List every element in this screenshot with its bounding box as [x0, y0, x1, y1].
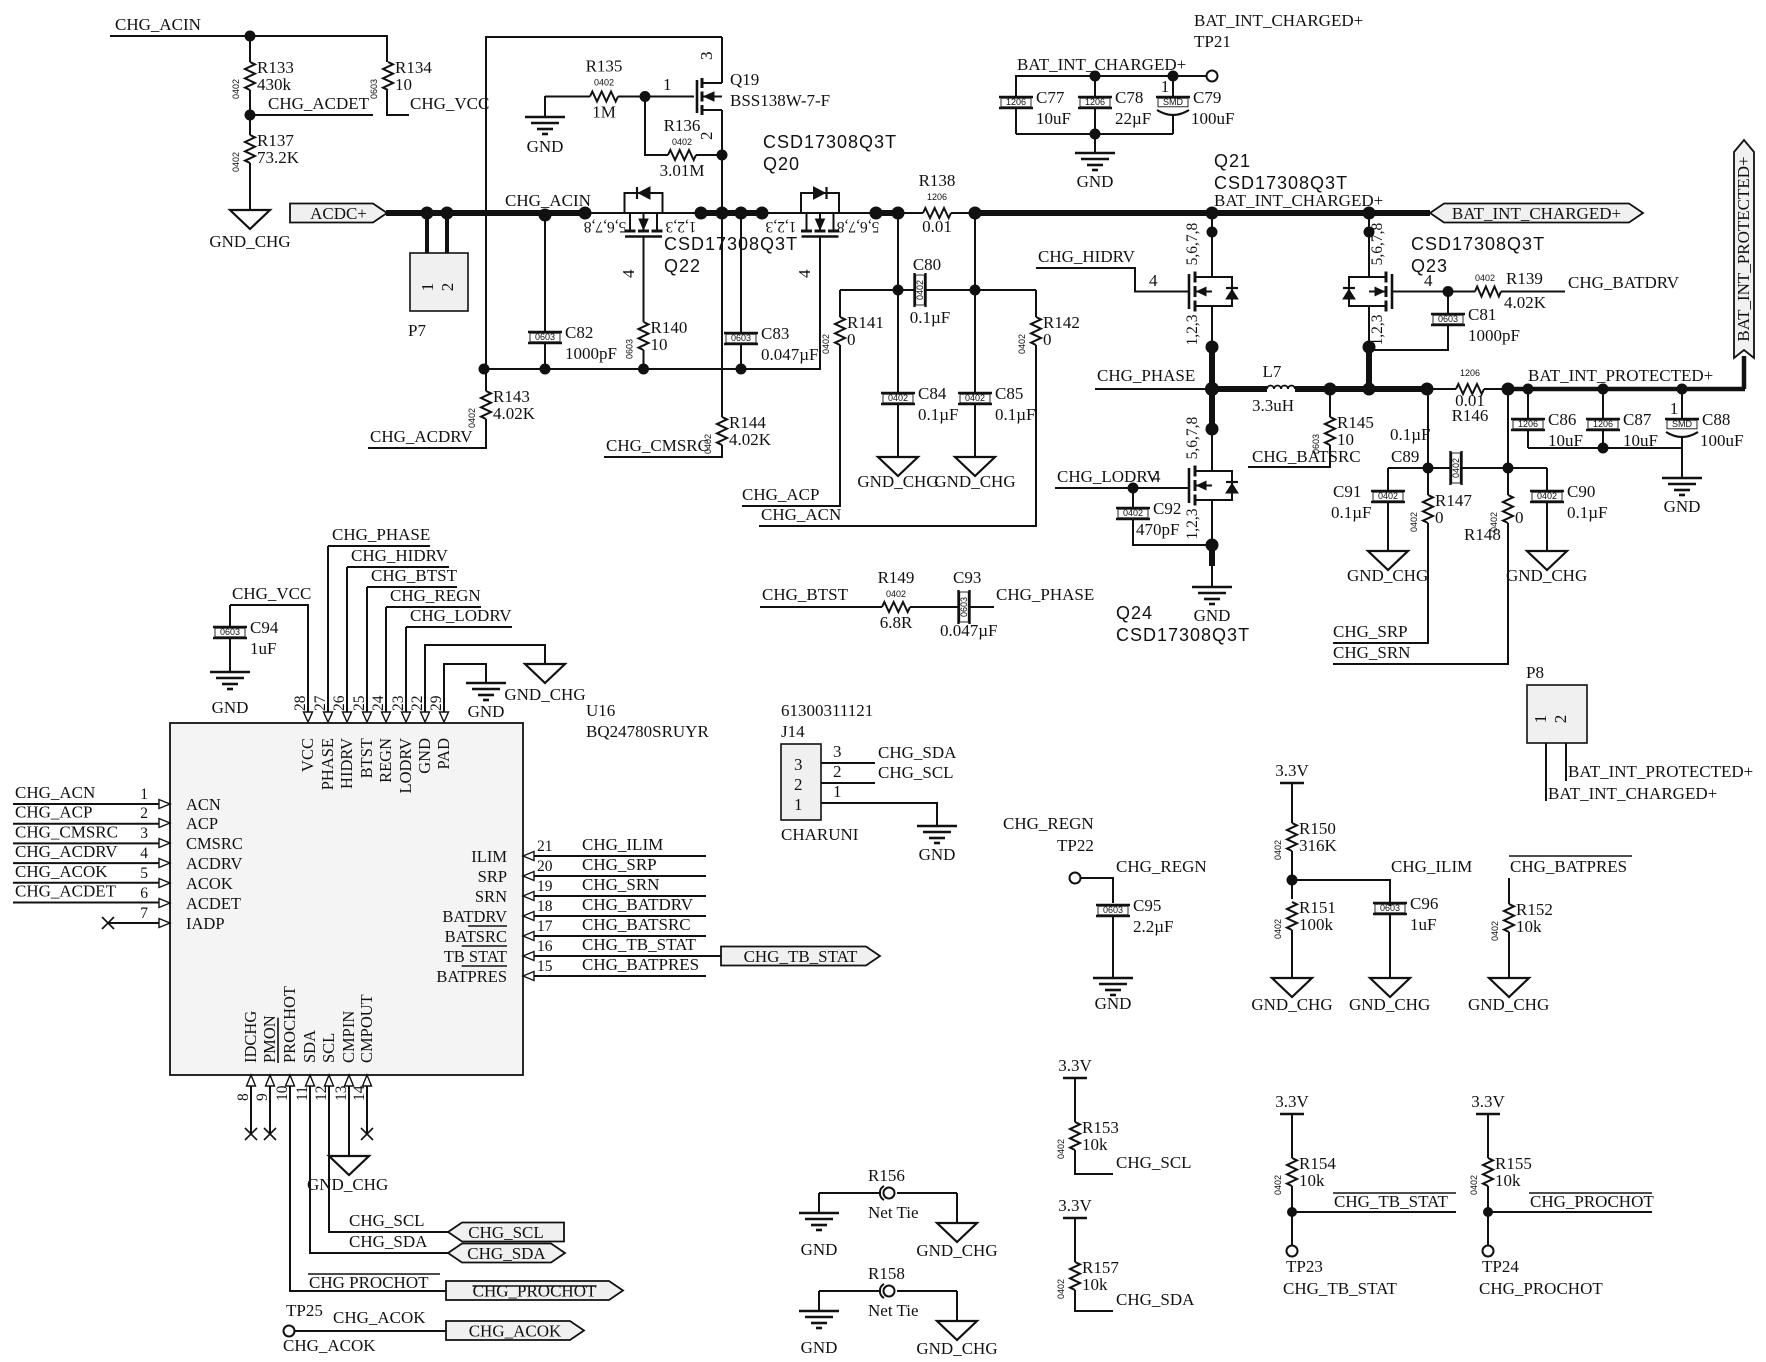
svg-text:GND: GND [801, 1338, 838, 1357]
svg-text:R135: R135 [586, 57, 623, 76]
svg-text:16: 16 [537, 938, 553, 955]
svg-text:1,2,3: 1,2,3 [1184, 314, 1201, 345]
resistor R136 [660, 116, 722, 180]
capacitor C88 [1665, 389, 1743, 450]
pin 22 GND [409, 696, 434, 774]
resistor R157 [1056, 1218, 1119, 1299]
ground GND_CHG [1347, 551, 1428, 585]
wire P8 pin1 [1545, 743, 1547, 801]
ground GND [525, 117, 565, 156]
svg-text:GND_CHG: GND_CHG [307, 1175, 388, 1194]
svg-text:CSD17308Q3T: CSD17308Q3T [664, 234, 798, 254]
svg-text:470pF: 470pF [1136, 520, 1179, 539]
node CHG_ILIM wire [534, 855, 706, 857]
power 3.3V [1275, 1092, 1309, 1114]
svg-text:C83: C83 [761, 324, 789, 343]
capacitor C91 [1331, 482, 1405, 551]
svg-text:CHG_ACN: CHG_ACN [15, 783, 95, 802]
wire bus thin Q20 region [762, 212, 876, 214]
svg-text:BAT_INT_PROTECTED+: BAT_INT_PROTECTED+ [1568, 762, 1753, 781]
junction [695, 207, 708, 220]
test point TP24 [1483, 1246, 1494, 1257]
junction [1677, 384, 1688, 395]
svg-text:TP21: TP21 [1194, 32, 1231, 51]
svg-text:SRN: SRN [475, 887, 507, 906]
wire C91 lead [1387, 468, 1389, 491]
svg-text:11: 11 [294, 1086, 311, 1101]
wire [643, 350, 645, 369]
svg-text:1000pF: 1000pF [1468, 326, 1520, 345]
svg-text:R149: R149 [878, 568, 915, 587]
wire R136 branch [645, 97, 668, 156]
svg-text:Q20: Q20 [763, 154, 800, 174]
svg-text:CHG_PROCHOT: CHG_PROCHOT [473, 1282, 597, 1301]
svg-text:ACP: ACP [186, 814, 218, 833]
junction [540, 364, 551, 375]
power 3.3V [1058, 1196, 1092, 1218]
wire CHG_ACP [742, 345, 840, 506]
svg-text:CHG_SRN: CHG_SRN [582, 875, 659, 894]
svg-text:0402: 0402 [231, 79, 241, 99]
pin 7 IADP [140, 905, 224, 933]
svg-text:CHG_SDA: CHG_SDA [349, 1232, 428, 1251]
pin 5 ACOK [140, 865, 233, 893]
svg-text:CMSRC: CMSRC [186, 834, 243, 853]
svg-text:GND: GND [1664, 497, 1701, 516]
wire C85 column [974, 213, 976, 393]
svg-text:0402: 0402 [1537, 491, 1557, 501]
svg-text:0402: 0402 [594, 78, 614, 88]
resistor R151 [1273, 898, 1336, 939]
pin 26 HIDRV [331, 695, 356, 789]
svg-text:0603: 0603 [1103, 905, 1123, 915]
svg-text:C85: C85 [995, 384, 1023, 403]
svg-text:29: 29 [428, 695, 445, 711]
svg-text:0402: 0402 [1273, 840, 1283, 860]
pin 10 PROCHOT [274, 986, 299, 1101]
svg-text:GND_CHG: GND_CHG [1251, 995, 1332, 1014]
wire R154 [1291, 1186, 1293, 1245]
svg-text:L7: L7 [1263, 362, 1282, 381]
svg-text:1206: 1206 [1518, 419, 1538, 429]
wire bus thin Q22 region [585, 212, 701, 214]
svg-text:0402: 0402 [1451, 458, 1461, 478]
wire C81 bottom [1371, 325, 1448, 350]
junction [441, 207, 454, 220]
svg-text:1206: 1206 [1085, 97, 1105, 107]
svg-text:SRP: SRP [478, 867, 507, 886]
svg-text:BAT_INT_CHARGED+: BAT_INT_CHARGED+ [1548, 784, 1717, 803]
wire to protected flag [1742, 356, 1747, 389]
wire pin13 CMPIN gnd [348, 1086, 350, 1156]
svg-text:12: 12 [313, 1086, 330, 1102]
svg-text:CHG_PHASE: CHG_PHASE [332, 525, 430, 544]
svg-text:0402: 0402 [888, 393, 908, 403]
svg-text:CHG_ACOK: CHG_ACOK [283, 1336, 376, 1355]
svg-text:3.3V: 3.3V [1275, 761, 1309, 780]
svg-text:BATSRC: BATSRC [445, 927, 507, 946]
svg-text:C96: C96 [1410, 894, 1438, 913]
svg-text:13: 13 [333, 1085, 350, 1101]
svg-text:3.3V: 3.3V [1058, 1196, 1092, 1215]
net flag BAT_INT_PROTECTED+ [1734, 140, 1754, 358]
svg-text:GND: GND [1194, 606, 1231, 625]
svg-text:CHG_ACIN: CHG_ACIN [505, 191, 591, 210]
svg-text:GND: GND [1095, 994, 1132, 1013]
junction [736, 364, 747, 375]
capacitor C85 [958, 384, 1036, 457]
svg-text:0.01: 0.01 [1455, 391, 1485, 410]
wire CHG_BATSRC [1248, 445, 1330, 467]
wire Q23 drain [1368, 213, 1370, 277]
svg-text:GND: GND [527, 137, 564, 156]
svg-text:SCL: SCL [319, 1033, 338, 1063]
svg-text:22µF: 22µF [1115, 109, 1151, 128]
ground GND_CHG [1349, 978, 1430, 1014]
svg-text:1: 1 [1531, 715, 1550, 724]
wire sense tap left [1427, 389, 1429, 468]
capacitor C81 [1431, 292, 1520, 346]
wire [1681, 448, 1683, 478]
svg-text:GND: GND [468, 702, 505, 721]
svg-text:14: 14 [351, 1085, 368, 1101]
svg-text:2: 2 [833, 762, 842, 781]
capacitor C78 [1078, 88, 1151, 134]
wire Q23 gate to R139 [1392, 291, 1475, 293]
svg-text:SDA: SDA [300, 1030, 319, 1063]
svg-text:CHG_SCL: CHG_SCL [468, 1223, 544, 1242]
resistor R158 net tie [819, 1264, 957, 1320]
svg-text:CHG_ACP: CHG_ACP [15, 803, 92, 822]
svg-text:CHG_ACN: CHG_ACN [761, 505, 841, 524]
junction [1206, 341, 1219, 354]
svg-text:CMPOUT: CMPOUT [357, 994, 376, 1063]
resistor R138 [898, 171, 975, 236]
terminal TP21 [1207, 71, 1218, 82]
junction [1168, 71, 1179, 82]
svg-text:5,6,7,8: 5,6,7,8 [1369, 222, 1386, 265]
svg-text:CHG_BATPRES: CHG_BATPRES [582, 955, 699, 974]
svg-text:1,2,3: 1,2,3 [1184, 508, 1201, 539]
ground GND [799, 1213, 839, 1259]
svg-text:6.8R: 6.8R [880, 613, 913, 632]
junction [539, 209, 552, 222]
ground GND [1075, 153, 1115, 191]
svg-text:10k: 10k [1516, 917, 1542, 936]
net flag BAT_INT_CHARGED+ [1430, 204, 1643, 224]
svg-text:8: 8 [235, 1093, 252, 1101]
junction [421, 207, 434, 220]
svg-text:C91: C91 [1333, 482, 1361, 501]
svg-text:2: 2 [1551, 715, 1570, 724]
svg-text:4: 4 [795, 269, 814, 278]
wire C77 block top [1016, 76, 1206, 97]
svg-text:1M: 1M [592, 103, 616, 122]
svg-text:J14: J14 [781, 722, 805, 741]
wire Q19 source to bus [721, 155, 723, 213]
svg-text:3: 3 [140, 825, 148, 842]
svg-text:CHG_ACOK: CHG_ACOK [333, 1308, 426, 1327]
wire pin10 PROCHOT [290, 1086, 446, 1291]
pin 15 BATPRES [436, 958, 552, 986]
transistor Q23 [1343, 272, 1392, 312]
svg-text:0.047µF: 0.047µF [940, 621, 998, 640]
wire phase bus [1212, 386, 1267, 392]
svg-text:0402: 0402 [1017, 334, 1027, 354]
transistor Q22 [625, 187, 663, 237]
svg-text:C87: C87 [1623, 410, 1652, 429]
wire CHG_SRN [1333, 523, 1508, 664]
svg-text:0402: 0402 [1378, 491, 1398, 501]
power 3.3V [1471, 1092, 1505, 1114]
resistor R156 net tie [819, 1166, 957, 1222]
svg-text:0402: 0402 [1490, 921, 1500, 941]
svg-text:R136: R136 [664, 116, 701, 135]
svg-text:TP25: TP25 [286, 1301, 323, 1320]
wire pin27 [328, 545, 430, 547]
svg-text:7: 7 [140, 905, 148, 922]
wire CHG_SCL pulldown [1075, 1150, 1113, 1174]
svg-text:BATDRV: BATDRV [442, 907, 507, 926]
wire CHG_ACDRV [368, 419, 486, 448]
capacitor C92 [1116, 488, 1181, 539]
wire [1291, 930, 1293, 978]
junction [969, 207, 982, 220]
svg-text:LODRV: LODRV [396, 738, 415, 794]
pin7 IADP no connect [108, 922, 159, 924]
svg-text:3: 3 [833, 742, 842, 761]
svg-text:3.3V: 3.3V [1275, 1092, 1309, 1111]
wire sense tap right [1507, 389, 1509, 468]
svg-text:3.3uH: 3.3uH [1252, 396, 1294, 415]
svg-text:0402: 0402 [1469, 1175, 1479, 1195]
svg-text:25: 25 [351, 695, 368, 711]
wire CHG_VCC label stub [387, 90, 409, 115]
wire CHG_BATPRES [1508, 878, 1510, 904]
junction [1363, 383, 1376, 396]
junction [1207, 227, 1218, 238]
resistor R152 [1490, 900, 1553, 941]
ground GND_CHG [916, 1321, 997, 1358]
svg-text:ACDET: ACDET [186, 894, 241, 913]
net flag CHG_PROCHOT [446, 1281, 623, 1301]
junction [892, 207, 905, 220]
junction [1128, 483, 1139, 494]
svg-text:CHG_SRN: CHG_SRN [1333, 643, 1410, 662]
junction [479, 364, 490, 375]
junction [1502, 383, 1515, 396]
svg-text:REGN: REGN [376, 738, 395, 783]
svg-text:20: 20 [537, 858, 553, 875]
svg-text:GND_CHG: GND_CHG [209, 232, 290, 251]
svg-text:ILIM: ILIM [471, 847, 507, 866]
wire C83 drop [740, 213, 742, 333]
net flag ACDC+ [290, 204, 387, 224]
svg-text:GND_CHG: GND_CHG [1349, 995, 1430, 1014]
wire Q23 source to phase [1366, 347, 1372, 389]
node CHG_BATSRC wire [534, 935, 706, 937]
ground GND_CHG [857, 457, 938, 491]
junction [1287, 875, 1298, 886]
svg-text:C94: C94 [250, 618, 279, 637]
svg-text:CHG_SRP: CHG_SRP [1333, 622, 1408, 641]
junction [1421, 383, 1434, 396]
svg-text:4: 4 [619, 269, 638, 278]
svg-text:CHG_ACDRV: CHG_ACDRV [370, 427, 473, 446]
svg-text:GND_CHG: GND_CHG [916, 1241, 997, 1260]
transistor Q19 [697, 37, 830, 155]
svg-text:CHG_ACDET: CHG_ACDET [15, 882, 117, 901]
resistor R146 [1427, 368, 1508, 425]
wire pin11 SDA [310, 1086, 448, 1253]
wire pin14 nc [366, 1086, 368, 1134]
resistor R144 [703, 413, 772, 454]
wire C80 row [840, 289, 914, 291]
wire C84 column [897, 213, 899, 393]
pin 18 BATDRV [442, 898, 552, 926]
svg-text:C86: C86 [1548, 410, 1576, 429]
capacitor C94 lead [229, 605, 231, 627]
junction [1523, 384, 1534, 395]
pin 11 SDA [294, 1030, 319, 1101]
svg-text:1206: 1206 [927, 192, 947, 202]
wire pin22 GND to GND_CHG [425, 645, 545, 712]
connector P8 [1526, 663, 1587, 743]
pin 4 ACDRV [140, 845, 242, 873]
IC U16 BQ24780SRUYR body [170, 723, 523, 1075]
node CHG_BATPRES [1509, 856, 1632, 876]
svg-text:CHG_LODRV: CHG_LODRV [1057, 467, 1159, 486]
svg-text:1206: 1206 [1593, 419, 1613, 429]
svg-text:CHG_REGN: CHG_REGN [390, 586, 481, 605]
junction [640, 91, 651, 102]
junction [1206, 423, 1219, 436]
svg-text:1: 1 [833, 782, 842, 801]
svg-text:TP23: TP23 [1286, 1257, 1323, 1276]
capacitor C82 [528, 323, 617, 369]
svg-text:PHASE: PHASE [318, 738, 337, 790]
svg-text:CHG_LODRV: CHG_LODRV [410, 606, 512, 625]
svg-text:CHG_ACDET: CHG_ACDET [268, 94, 370, 113]
pin 21 ILIM [471, 838, 552, 866]
pin 29 PAD [428, 695, 453, 769]
svg-text:100uF: 100uF [1191, 109, 1234, 128]
resistor R141 [821, 290, 884, 354]
capacitor C94 [213, 618, 279, 672]
svg-text:Q19: Q19 [730, 70, 759, 89]
wire pin8 nc [250, 1086, 252, 1134]
svg-text:GND: GND [212, 698, 249, 717]
wire CHG_ACDET [250, 114, 373, 116]
resistor R149 [878, 568, 915, 632]
wire CMSRC vertical [721, 213, 723, 417]
pin 2 ACP [140, 805, 218, 833]
svg-text:1,2,3: 1,2,3 [665, 218, 696, 235]
wire C77 block bottom [1016, 133, 1173, 135]
svg-text:C82: C82 [565, 323, 593, 342]
wire CHG_HIDRV [1036, 268, 1189, 292]
svg-text:10: 10 [395, 75, 412, 94]
svg-text:0.1µF: 0.1µF [918, 405, 959, 424]
svg-text:CHG_SDA: CHG_SDA [467, 1244, 546, 1263]
svg-text:GND: GND [919, 845, 956, 864]
pin 1 ACN [140, 786, 221, 814]
svg-text:GND_CHG: GND_CHG [934, 472, 1015, 491]
svg-text:GND: GND [1077, 172, 1114, 191]
svg-text:0603: 0603 [959, 597, 969, 617]
svg-text:CHG_PROCHOT: CHG_PROCHOT [1530, 1192, 1654, 1211]
svg-text:PAD: PAD [434, 738, 453, 770]
junction [1206, 207, 1219, 220]
svg-text:SMD: SMD [1163, 97, 1184, 107]
svg-text:0.01: 0.01 [922, 217, 952, 236]
capacitor C84 [881, 384, 959, 457]
svg-text:GND_CHG: GND_CHG [504, 685, 585, 704]
ground GND_CHG [934, 457, 1015, 491]
svg-text:Q21: Q21 [1214, 151, 1251, 171]
svg-text:0402: 0402 [1409, 512, 1419, 532]
svg-text:CHARUNI: CHARUNI [781, 825, 859, 844]
wire protected bus [1508, 387, 1745, 392]
svg-text:ACOK: ACOK [186, 874, 233, 893]
svg-text:CHG_ACIN: CHG_ACIN [115, 15, 201, 34]
svg-text:0402: 0402 [886, 589, 906, 599]
svg-text:GND_CHG: GND_CHG [1347, 566, 1428, 585]
svg-text:CHG_VCC: CHG_VCC [232, 584, 311, 603]
svg-text:CSD17308Q3T: CSD17308Q3T [1116, 625, 1250, 645]
junction [638, 364, 649, 375]
junction [1090, 129, 1101, 140]
svg-text:ACDRV: ACDRV [186, 854, 243, 873]
junction [1206, 539, 1219, 552]
svg-text:0.1µF: 0.1µF [1390, 425, 1431, 444]
net flag CHG_TB_STAT [721, 947, 880, 967]
pin 9 PMON [254, 1015, 279, 1101]
wire bus BAT_INT_CHARGED+ [975, 210, 1430, 216]
svg-text:BAT_INT_CHARGED+: BAT_INT_CHARGED+ [1017, 55, 1186, 74]
svg-text:BAT_INT_CHARGED+: BAT_INT_CHARGED+ [1194, 11, 1363, 30]
junction [870, 207, 883, 220]
resistor R153 [1056, 1078, 1119, 1159]
svg-text:19: 19 [537, 878, 553, 895]
svg-text:CSD17308Q3T: CSD17308Q3T [1411, 234, 1545, 254]
wire Q24 source [1211, 500, 1213, 545]
net flag CHG_SCL [448, 1223, 564, 1243]
junction [1205, 382, 1219, 396]
svg-text:CHG_BATSRC: CHG_BATSRC [582, 915, 691, 934]
svg-text:CHG_REGN: CHG_REGN [1116, 857, 1207, 876]
svg-text:CSD17308Q3T: CSD17308Q3T [1214, 173, 1348, 193]
ground GND [466, 683, 506, 721]
pin 13 CMPIN [333, 1011, 358, 1101]
resistor R150 [1273, 783, 1338, 860]
capacitor C90 [1530, 482, 1608, 551]
junction [1598, 384, 1609, 395]
svg-text:CHG_SRP: CHG_SRP [582, 855, 657, 874]
svg-text:C81: C81 [1468, 305, 1496, 324]
svg-text:22: 22 [409, 696, 426, 712]
resistor R140 [625, 318, 688, 359]
svg-text:15: 15 [537, 958, 553, 975]
wire pin23 [406, 626, 512, 628]
svg-text:0402: 0402 [231, 152, 241, 172]
svg-text:18: 18 [537, 898, 553, 915]
junction [245, 31, 256, 42]
svg-text:CHG_SCL: CHG_SCL [1116, 1153, 1192, 1172]
svg-text:316K: 316K [1299, 836, 1338, 855]
wire Q21 source [1211, 306, 1213, 347]
svg-text:C84: C84 [918, 384, 947, 403]
